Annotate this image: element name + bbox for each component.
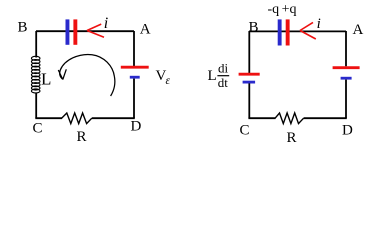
svg-text:A: A: [140, 21, 151, 37]
wire top side B-A (right circuit): [249, 30, 346, 32]
svg-text:L: L: [41, 70, 51, 89]
wire left side B-C upper segment: [35, 31, 37, 58]
capacitor C1 right plate (red): [73, 19, 77, 44]
wire right side A to battery top: [133, 31, 135, 66]
svg-text:ε: ε: [166, 75, 171, 87]
svg-text:i: i: [317, 16, 321, 32]
resistor R2 zigzag (right circuit): [275, 113, 304, 124]
svg-text:dt: dt: [218, 75, 229, 90]
back-EMF element L di/dt top plate (red): [239, 73, 260, 76]
svg-text:C: C: [240, 122, 250, 138]
capacitor C1 left plate (blue): [66, 19, 70, 44]
svg-text:i: i: [104, 15, 108, 32]
svg-text:di: di: [218, 60, 229, 75]
battery right negative plate (blue): [341, 77, 352, 80]
wire bottom right segment resistor to D: [304, 117, 347, 119]
current arrow i (red, left circuit): [87, 24, 104, 37]
wire bottom left segment C to resistor: [248, 117, 275, 119]
battery Vs positive plate (red): [121, 66, 149, 69]
resistor R1 zigzag (left circuit): [62, 113, 92, 124]
capacitor C2 right plate (red) with charge +q: [286, 19, 290, 45]
wire left side battery bottom to C: [248, 83, 250, 118]
wire right side battery bottom to D: [345, 80, 347, 118]
loop direction curved arrow (counterclockwise): [60, 54, 115, 96]
svg-text:D: D: [342, 122, 353, 138]
svg-text:C: C: [33, 121, 43, 137]
battery Vs negative plate (blue): [130, 76, 140, 79]
svg-text:L: L: [208, 68, 217, 84]
wire left side B to battery top: [248, 31, 250, 73]
capacitor C2 left plate (blue) with charge -q: [278, 19, 282, 45]
svg-text:R: R: [287, 130, 297, 146]
svg-text:R: R: [77, 129, 87, 145]
svg-text:+q: +q: [282, 2, 297, 17]
wire right side A to battery top: [345, 31, 347, 66]
wire top side B-A (left circuit): [36, 30, 134, 32]
svg-text:D: D: [131, 118, 142, 134]
svg-text:B: B: [249, 19, 259, 35]
back-EMF element L di/dt bottom plate (blue): [243, 81, 256, 84]
battery right positive plate (red): [333, 66, 360, 69]
svg-text:-q: -q: [268, 2, 280, 17]
svg-text:A: A: [353, 22, 364, 38]
wire left side lower segment to C: [35, 93, 37, 119]
wire bottom right segment resistor to D: [92, 117, 135, 119]
inductor L1 coil: [31, 56, 40, 93]
current arrow i (red, right circuit): [300, 22, 316, 39]
loop arrowhead: [58, 69, 66, 79]
wire right side battery bottom to D: [133, 79, 135, 118]
wire bottom left segment C to resistor: [35, 117, 62, 119]
svg-text:B: B: [18, 19, 28, 35]
